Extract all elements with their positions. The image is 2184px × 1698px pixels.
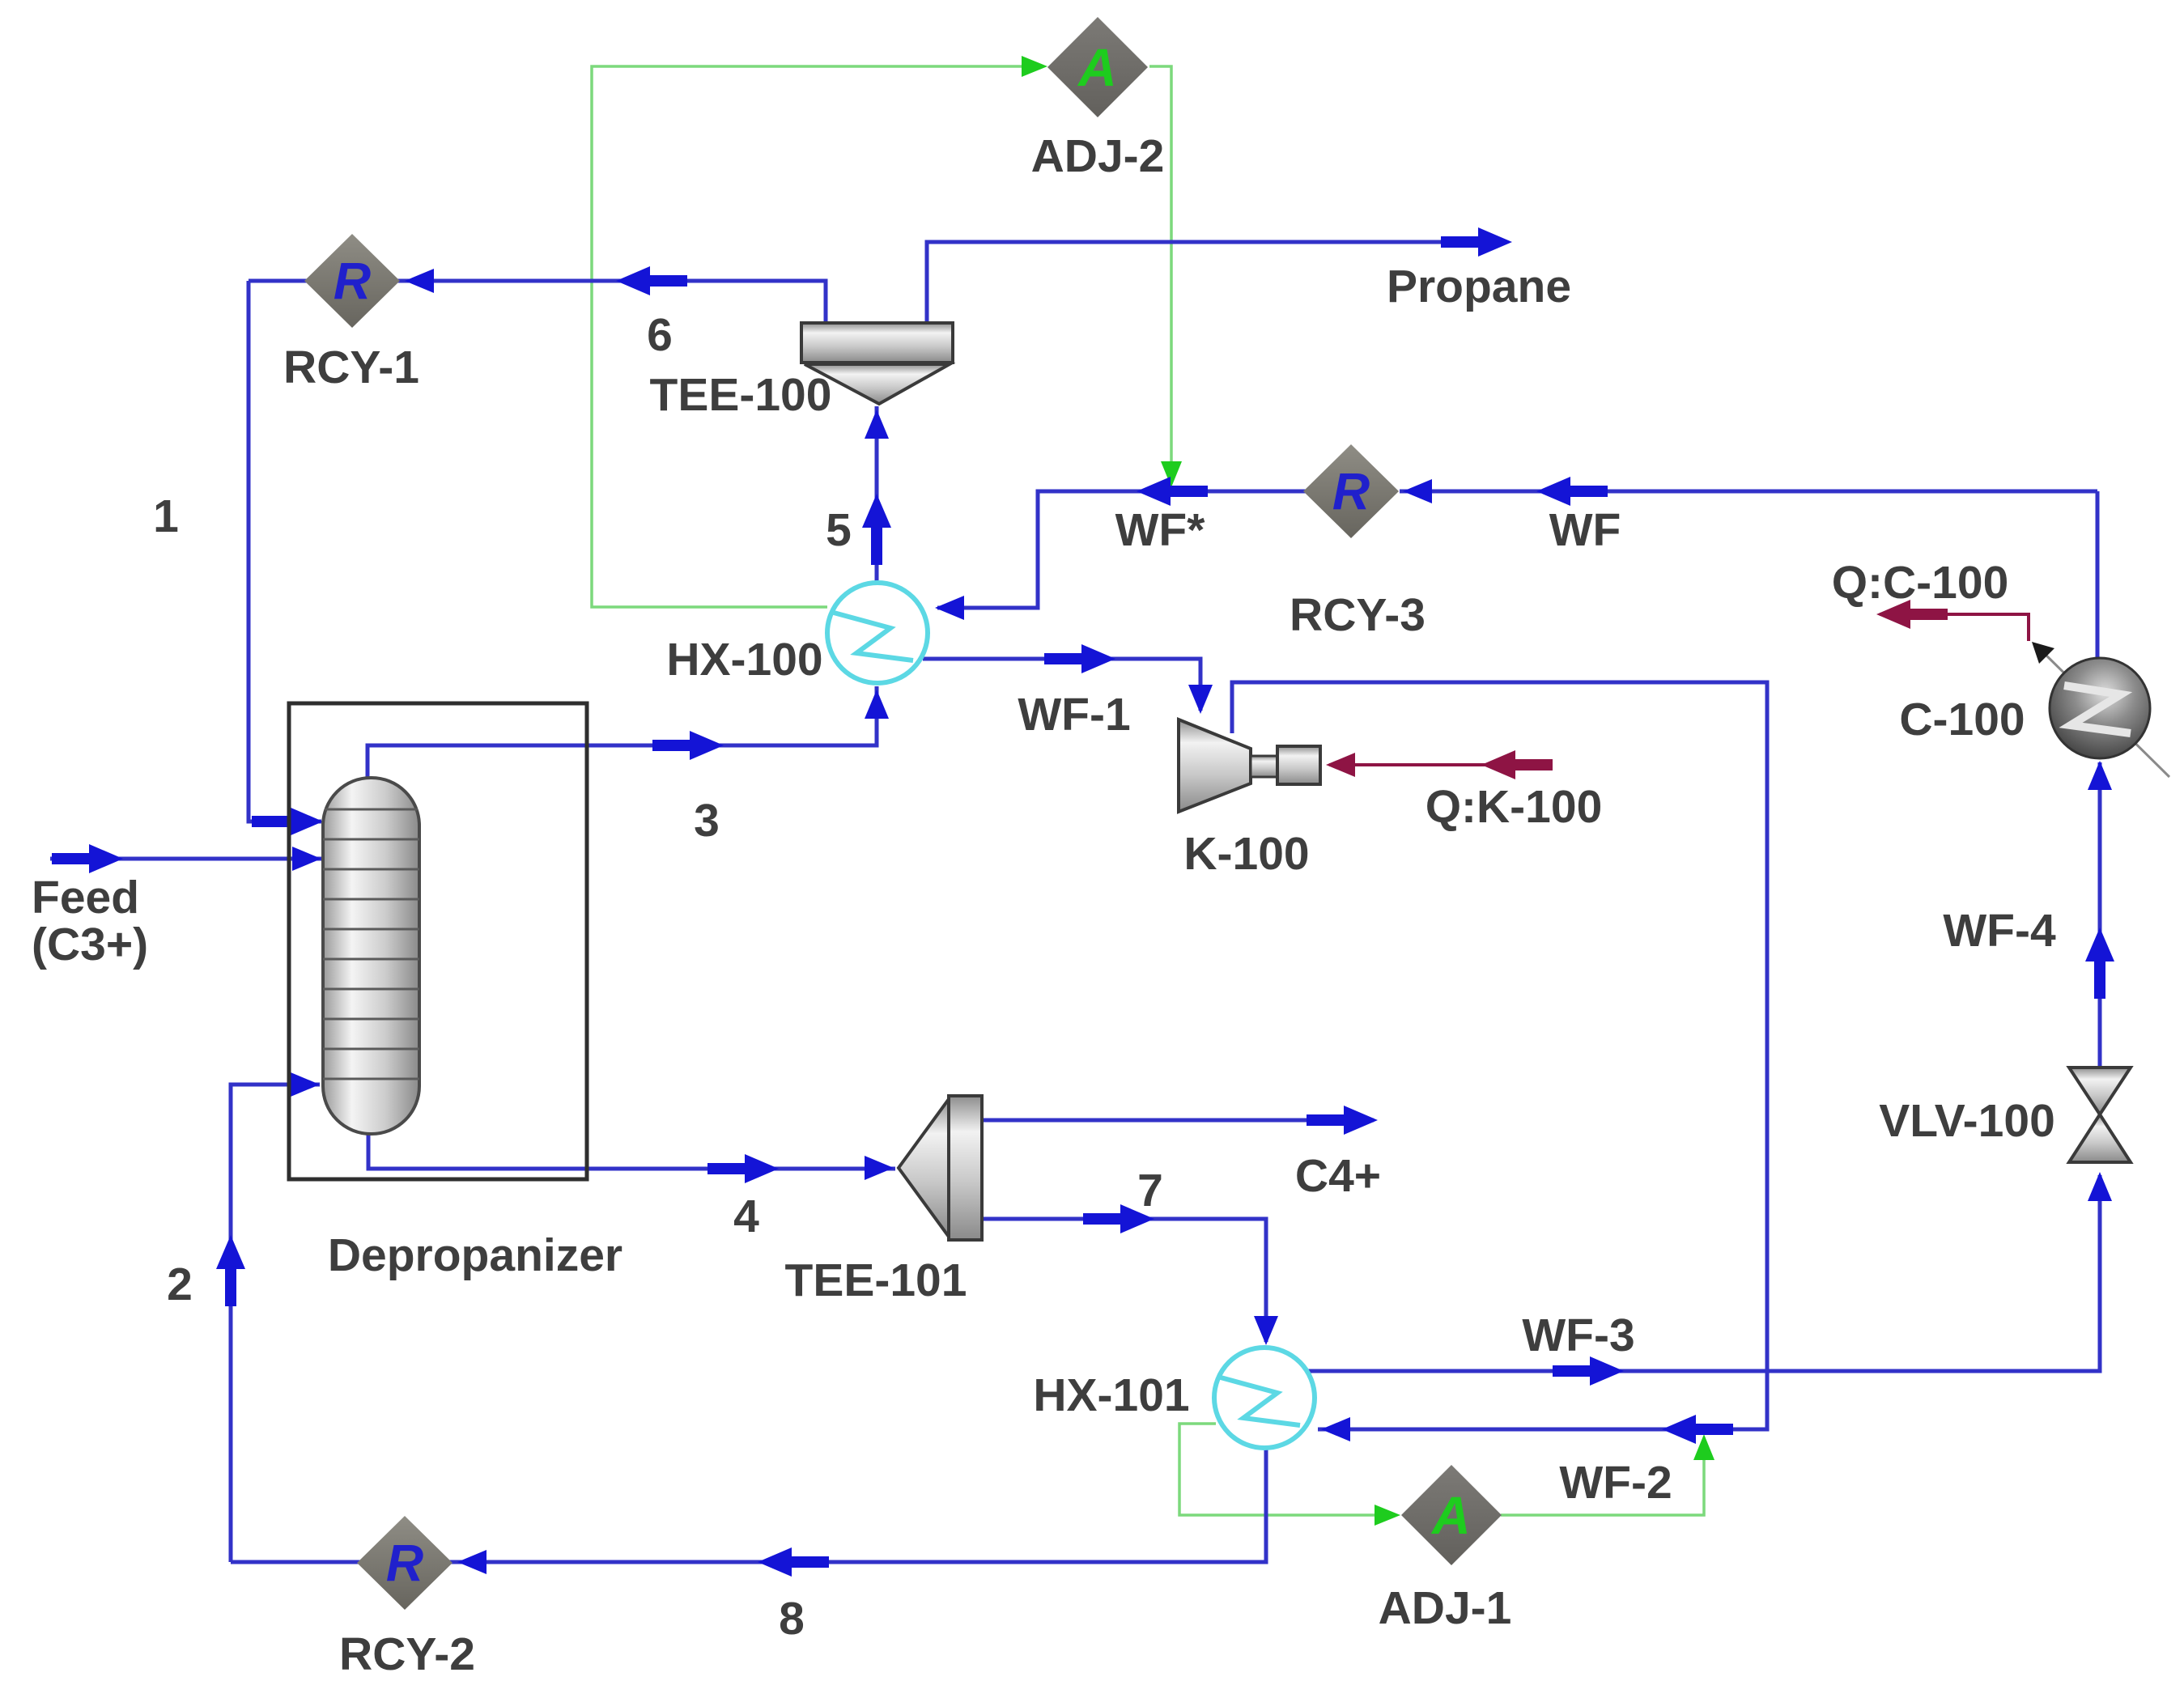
recycle RCY-2 <box>357 1516 453 1610</box>
wire WF* from RCY-3 into HX-100 <box>937 491 1307 608</box>
node Q:K-100 thick arrow <box>1481 750 1553 779</box>
svg-text:Q:K-100: Q:K-100 <box>1426 781 1603 833</box>
wire green ADJ-1 input from HX-101 <box>1179 1424 1396 1515</box>
svg-text:K-100: K-100 <box>1183 828 1309 880</box>
heat exchanger HX-101 <box>1214 1348 1315 1448</box>
wire stream 8 HX-101 to RCY-2 <box>231 1448 1266 1562</box>
svg-text:WF-1: WF-1 <box>1018 689 1130 741</box>
node Propane arrow <box>1441 227 1512 257</box>
node WF-3 arrow mid <box>1553 1356 1624 1386</box>
node WF-4 arrow up into C-100 <box>2088 761 2112 790</box>
wire green ADJ-1 output to WF-2 line <box>1501 1439 1704 1515</box>
svg-text:HX-101: HX-101 <box>1033 1369 1189 1421</box>
column vessel Depropanizer <box>323 778 419 1134</box>
svg-text:R: R <box>334 252 371 310</box>
node WF-2 arrow into HX-101 <box>1321 1417 1350 1441</box>
node WF-4 arrow mid <box>2085 928 2114 999</box>
wire stream 2 up into column <box>231 1085 320 1562</box>
node Q:C-100 thick arrow <box>1876 600 1948 629</box>
wire stream 5 HX-100 to TEE-100 <box>875 406 879 584</box>
svg-text:Depropanizer: Depropanizer <box>328 1229 622 1281</box>
svg-text:7: 7 <box>1137 1165 1163 1216</box>
green arrow into ADJ-1 <box>1375 1505 1400 1526</box>
valve VLV-100 <box>2069 1068 2131 1162</box>
svg-text:WF*: WF* <box>1115 504 1206 556</box>
svg-text:4: 4 <box>733 1191 759 1242</box>
node stream 4 arrow into TEE-101 <box>865 1156 894 1180</box>
wire Q:K-100 energy line <box>1329 763 1545 766</box>
splitter TEE-100 <box>801 323 953 404</box>
node stream 3 arrow mid <box>652 731 724 760</box>
wire WF-4 VLV-100 to C-100 <box>2098 762 2102 1067</box>
node WF arrow mid <box>1536 477 1608 506</box>
svg-text:R: R <box>1332 462 1370 520</box>
svg-text:8: 8 <box>779 1593 805 1645</box>
wire stream 1 RCY-1 down to column <box>249 281 321 821</box>
wire Feed line <box>50 857 321 861</box>
svg-text:2: 2 <box>167 1259 193 1310</box>
compressor K-100 <box>1179 720 1320 812</box>
splitter TEE-101 <box>899 1096 982 1240</box>
svg-text:6: 6 <box>647 309 673 361</box>
svg-text:(C3+): (C3+) <box>32 919 148 970</box>
node stream 8 arrow mid <box>758 1547 829 1577</box>
svg-text:WF-2: WF-2 <box>1559 1457 1672 1509</box>
node Q:K-100 arrowhead into K-100 <box>1326 753 1355 777</box>
svg-text:C4+: C4+ <box>1295 1150 1381 1202</box>
recycle RCY-3 <box>1303 444 1399 538</box>
heat exchanger HX-100 <box>827 583 928 683</box>
node WF-1 arrow mid <box>1044 644 1115 673</box>
svg-text:ADJ-1: ADJ-1 <box>1379 1582 1512 1634</box>
svg-text:1: 1 <box>153 490 179 542</box>
green arrow down into WF* junction <box>1161 461 1182 487</box>
node stream 8 arrow into RCY-2 <box>457 1550 487 1574</box>
svg-text:Q:C-100: Q:C-100 <box>1832 557 2009 609</box>
svg-text:WF: WF <box>1549 504 1621 556</box>
adjust ADJ-1 <box>1401 1465 1502 1565</box>
green arrow up into WF-2 line <box>1693 1434 1714 1460</box>
node stream 4 arrow mid <box>707 1154 779 1183</box>
node stream 7 arrow mid <box>1083 1204 1154 1233</box>
svg-text:A: A <box>1077 37 1117 97</box>
node Feed arrow <box>52 844 123 873</box>
node WF-3 arrow up into VLV-100 <box>2088 1172 2112 1201</box>
wire stream 6 horizontal TEE-100 to RCY-1 <box>249 281 826 332</box>
adjust ADJ-2 <box>1047 17 1148 117</box>
svg-text:C-100: C-100 <box>1899 694 2025 745</box>
svg-text:RCY-1: RCY-1 <box>283 342 419 393</box>
wire WF-3 HX-101 to VLV-100 <box>1307 1175 2100 1371</box>
svg-text:ADJ-2: ADJ-2 <box>1031 130 1165 182</box>
wire C-100 vertical through cooler <box>2096 491 2100 758</box>
wire Propane product line <box>927 242 1507 332</box>
node stream 5 arrow mid <box>862 494 891 565</box>
node stream 6 arrow into RCY-1 <box>405 269 434 293</box>
wire WF-1 HX-100 to K-100 <box>923 659 1200 711</box>
svg-text:Feed: Feed <box>32 872 139 923</box>
node WF-1 arrow down into K-100 <box>1188 685 1213 714</box>
node stream 6 arrow mid <box>616 266 687 295</box>
svg-text:TEE-100: TEE-100 <box>650 369 832 421</box>
wire Q:C-100 energy line <box>1880 614 2029 641</box>
wire stream 7 TEE-101 to HX-101 <box>982 1219 1266 1342</box>
wire C4+ product line <box>982 1119 1374 1123</box>
wire green ADJ-2 input from HX-100 <box>592 66 1041 607</box>
wire WF from C-100 to RCY-3 <box>1400 490 2097 494</box>
node stream 7 arrow down into HX-101 <box>1254 1316 1278 1345</box>
node WF* arrow mid <box>1137 477 1208 506</box>
svg-text:RCY-2: RCY-2 <box>339 1628 475 1680</box>
svg-text:WF-4: WF-4 <box>1943 905 2056 957</box>
svg-text:A: A <box>1430 1485 1471 1545</box>
svg-text:Propane: Propane <box>1387 261 1571 312</box>
node WF* arrow into HX-100 <box>935 596 964 620</box>
svg-text:5: 5 <box>826 504 852 556</box>
node stream 1 arrow into column <box>252 807 323 836</box>
node WF-2 arrow mid <box>1662 1415 1733 1444</box>
svg-text:WF-3: WF-3 <box>1522 1310 1634 1361</box>
node C4+ arrow <box>1307 1106 1378 1135</box>
node Feed arrow into column <box>292 847 321 871</box>
svg-text:HX-100: HX-100 <box>666 634 822 686</box>
svg-text:VLV-100: VLV-100 <box>1879 1095 2055 1147</box>
node stream 5 arrow into TEE-100 <box>865 410 889 439</box>
node WF arrow into RCY-3 <box>1403 479 1432 503</box>
column subflowsheet box Depropanizer <box>289 703 587 1179</box>
green arrow into ADJ-2 <box>1022 56 1047 77</box>
wire stream 3 column overhead to HX-100 <box>368 686 877 780</box>
cooler C-100 <box>2032 642 2169 777</box>
wire stream 4 column bottoms to TEE-101 <box>368 1132 895 1169</box>
wire green ADJ-2 output to WF* junction <box>1149 66 1171 482</box>
node stream 3 arrow up into HX-100 <box>865 690 889 719</box>
recycle RCY-1 <box>304 234 400 328</box>
wire K-100 outlet to HX-101 (WF-2) <box>1232 682 1767 1429</box>
node stream 2 arrow into column <box>291 1072 320 1097</box>
svg-text:TEE-101: TEE-101 <box>785 1254 967 1306</box>
svg-text:3: 3 <box>694 795 720 847</box>
svg-text:RCY-3: RCY-3 <box>1290 589 1426 641</box>
svg-text:R: R <box>386 1534 423 1592</box>
node stream 2 up arrow <box>216 1235 245 1306</box>
